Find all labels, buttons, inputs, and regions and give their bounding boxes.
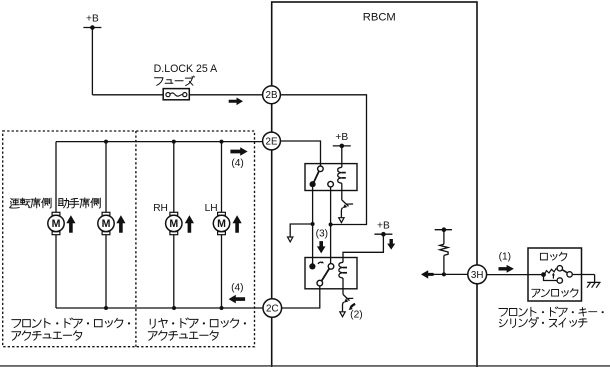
junction xyxy=(220,306,224,310)
actuate arrow up xyxy=(116,215,125,233)
svg-text:(2): (2) xyxy=(350,310,362,321)
switch move arrow xyxy=(552,273,555,279)
label lock (jp) xyxy=(540,252,566,261)
svg-text:+B: +B xyxy=(377,220,390,231)
continuation arrow left xyxy=(421,270,434,278)
relay contact NO xyxy=(328,264,334,270)
svg-text:LH: LH xyxy=(205,203,218,214)
actuate arrow (2) xyxy=(349,304,356,310)
unlock contact xyxy=(557,278,562,283)
svg-text:+B: +B xyxy=(335,132,348,143)
power +B (relay 2) xyxy=(374,220,392,236)
flow arrow down (+B) xyxy=(387,239,395,250)
junction xyxy=(172,140,176,144)
wire fuse to 2B xyxy=(189,94,262,96)
flow arrow (3) down xyxy=(317,241,326,253)
wire to resistor xyxy=(443,230,445,245)
key cylinder switch box xyxy=(528,248,582,301)
relay contact common xyxy=(318,166,324,172)
junction xyxy=(104,306,108,310)
actuate arrow up xyxy=(233,215,242,233)
label D.LOCK 25 A xyxy=(154,63,219,75)
junction xyxy=(104,140,108,144)
flow arrow (1) xyxy=(499,265,514,273)
connector 2C xyxy=(263,299,282,318)
relay arm xyxy=(314,171,319,182)
power +B (fuse feed) xyxy=(83,14,101,30)
svg-text:+B: +B xyxy=(86,14,99,25)
wire switch out xyxy=(572,275,594,283)
power +B (relay 1) xyxy=(333,132,351,148)
wire 3H to switch xyxy=(487,274,528,276)
label front door key cylinder switch (jp) xyxy=(499,307,604,328)
relay coil xyxy=(338,164,346,191)
motor door-lock RH xyxy=(166,142,182,308)
wire relay contacts xyxy=(330,187,332,264)
junction xyxy=(311,222,315,226)
svg-text:2B: 2B xyxy=(266,90,278,101)
junction xyxy=(329,223,333,227)
wire branch out xyxy=(290,224,312,237)
relay contact NO xyxy=(328,181,334,187)
svg-text:RBCM: RBCM xyxy=(363,11,396,23)
label RH xyxy=(153,203,168,214)
svg-text:M: M xyxy=(169,218,178,230)
resistor R xyxy=(440,244,448,255)
label RBCM xyxy=(363,11,396,23)
motor door-lock passenger side xyxy=(98,142,114,308)
label LH xyxy=(205,203,218,214)
unlock path xyxy=(544,275,558,281)
label driver side (jp) xyxy=(10,198,51,208)
svg-text:(3): (3) xyxy=(316,229,328,240)
svg-text:M: M xyxy=(102,218,111,230)
label fuse (jp) xyxy=(155,76,195,86)
svg-text:2E: 2E xyxy=(266,136,278,147)
svg-text:D.LOCK 25 A: D.LOCK 25 A xyxy=(154,63,219,75)
lock contact xyxy=(557,266,562,271)
wire bottom rail xyxy=(56,307,263,309)
svg-text:M: M xyxy=(217,218,226,230)
connector 2E xyxy=(263,132,281,150)
flow arrow at 2B xyxy=(229,97,243,105)
junction xyxy=(442,272,446,276)
junction xyxy=(172,306,176,310)
motor door-lock LH xyxy=(213,142,229,308)
wire relay1 to relay2 (switch) xyxy=(312,187,314,263)
relay contact common xyxy=(317,280,323,286)
svg-text:3H: 3H xyxy=(471,270,484,281)
relay contact NC xyxy=(310,181,316,187)
wire resistor down xyxy=(443,255,445,274)
svg-text:(4): (4) xyxy=(231,282,243,293)
wire +B to fuse xyxy=(92,94,163,96)
wiper contact xyxy=(567,272,572,277)
wire into switch xyxy=(528,274,544,276)
label rear door lock actuator (jp) xyxy=(148,318,246,340)
connector 3H xyxy=(468,265,487,284)
label (2) xyxy=(350,310,362,321)
figure bottom border xyxy=(0,365,610,367)
junction xyxy=(220,140,224,144)
switch resistor xyxy=(545,269,557,274)
label (1) xyxy=(499,252,511,263)
svg-text:RH: RH xyxy=(153,203,168,214)
actuator box divider (dashed) xyxy=(135,131,137,347)
actuate arrow up xyxy=(66,215,75,233)
label passenger side (jp) xyxy=(58,198,100,208)
relay box (unlock) xyxy=(305,164,357,191)
flow arrow (4) in xyxy=(229,282,246,303)
label (3) xyxy=(316,229,328,240)
wire 2E rail xyxy=(56,141,263,143)
svg-text:2C: 2C xyxy=(266,304,279,315)
power tick (resistor feed) xyxy=(435,227,452,232)
wire +B to coil xyxy=(341,146,343,164)
svg-text:(1): (1) xyxy=(499,252,511,263)
svg-text:(4): (4) xyxy=(231,158,243,169)
relay coil xyxy=(339,258,347,289)
continuation arrow xyxy=(288,237,293,242)
wire 2E to relay xyxy=(280,141,320,166)
ground (body) xyxy=(587,282,601,287)
actuate arrow up xyxy=(185,215,194,233)
motor door-lock driver side xyxy=(48,142,64,308)
relay box (lock) xyxy=(305,258,357,289)
RBCM module box xyxy=(272,2,477,367)
wire relay2 to 2C xyxy=(282,286,320,308)
flow arrow (4) out xyxy=(230,147,247,169)
front door lock actuator box (dashed) xyxy=(3,131,255,347)
fuse D.LOCK 25A xyxy=(163,89,189,100)
relay2 coil control line w/ arrow xyxy=(340,289,354,317)
switch wiper xyxy=(562,270,567,273)
wire +B down xyxy=(91,28,93,95)
wire 2B feed xyxy=(280,95,366,225)
relay1 coil control line w/ arrow xyxy=(339,191,353,223)
wire 3H line xyxy=(424,273,468,275)
svg-text:M: M xyxy=(52,218,61,230)
wire +B to relay2 coil xyxy=(343,234,383,257)
connector 2B xyxy=(263,86,281,104)
label unlock (jp) xyxy=(532,288,578,297)
label front door lock actuator (jp) xyxy=(12,318,130,340)
relay arm xyxy=(322,269,330,281)
relay contact NC xyxy=(309,263,315,269)
switch common node xyxy=(541,272,546,277)
relay actuate arrow (small) xyxy=(318,261,324,264)
